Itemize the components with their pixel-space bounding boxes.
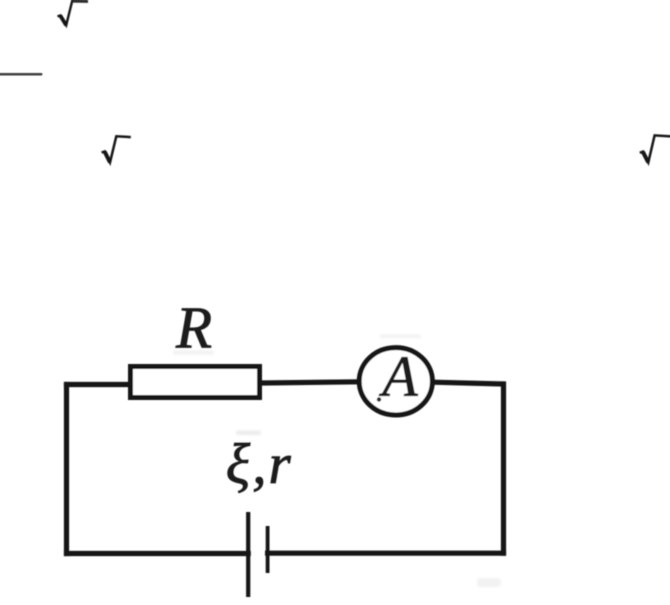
wire: left vertical side xyxy=(64,385,69,554)
radical sign (left) xyxy=(102,136,131,162)
ammeter A (meter circle) xyxy=(359,348,432,415)
wire: right vertical side xyxy=(501,384,506,553)
battery cell: short plate xyxy=(266,526,270,573)
radical sign (top, clipped) xyxy=(58,1,89,26)
faint smudge above ammeter xyxy=(380,335,421,339)
fraction bar (left edge) xyxy=(0,73,43,76)
wire: ammeter to right corner xyxy=(433,382,504,384)
faint smudge above R xyxy=(173,351,214,355)
wire: bottom right segment (battery to right corner) xyxy=(268,551,504,556)
svg-text:ξ,r: ξ,r xyxy=(226,433,293,496)
svg-text:A: A xyxy=(378,344,418,409)
faint smudge above xi xyxy=(236,431,261,436)
wire: top left segment (corner to resistor) xyxy=(67,382,131,387)
wire: resistor to ammeter xyxy=(262,382,359,383)
radical sign (right, clipped) xyxy=(640,135,670,162)
resistor R xyxy=(131,367,260,398)
speck below A xyxy=(377,397,381,401)
battery cell: long plate xyxy=(246,512,250,597)
faint watermark bottom right xyxy=(477,578,501,587)
wire: bottom left segment (left corner to battery) xyxy=(67,551,249,556)
